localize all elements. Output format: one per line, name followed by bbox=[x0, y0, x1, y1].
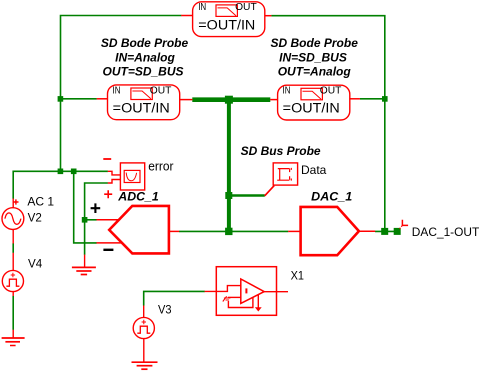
svg-text:ADC_1: ADC_1 bbox=[117, 189, 159, 203]
probe U5 icon bbox=[216, 5, 237, 17]
pin stub right probe IN bbox=[270, 99, 277, 101]
wire ADC plus input branch bbox=[85, 219, 97, 221]
svg-text:IN=SD_BUS: IN=SD_BUS bbox=[279, 50, 347, 64]
pin stub top probe IN bbox=[181, 15, 192, 17]
probe U5 text bbox=[198, 1, 257, 32]
label SD Bode Probe right bbox=[271, 36, 359, 79]
X1 ground arrow bbox=[257, 295, 259, 308]
svg-text:Data: Data bbox=[301, 163, 327, 177]
ground under ADC bbox=[72, 267, 96, 274]
X1 lower input wire bbox=[228, 296, 241, 298]
ADC minus mark bbox=[103, 249, 113, 251]
ADC plus mark bbox=[91, 203, 101, 213]
wire ADC minus input branch bbox=[74, 171, 97, 243]
wire top-right net (top probe OUT down to DAC output node) bbox=[271, 16, 385, 232]
label SD Bode Probe left bbox=[101, 36, 189, 79]
probe U6 icon bbox=[131, 88, 152, 100]
wire V3 to X1 input bbox=[144, 291, 205, 305]
wire ADC output to DAC input bbox=[179, 230, 288, 232]
svg-text:=OUT/IN: =OUT/IN bbox=[283, 101, 340, 116]
svg-text:IN: IN bbox=[283, 85, 291, 97]
junction bus tee bbox=[225, 96, 233, 104]
error probe plus mark bbox=[104, 190, 112, 198]
pin stub V2 bottom bbox=[12, 229, 14, 243]
junction ADC plus input bbox=[82, 217, 88, 223]
X1 input step wire bbox=[205, 286, 241, 292]
pin stub V2 top bbox=[12, 199, 14, 208]
probe U7 icon bbox=[301, 88, 322, 100]
pin stub left probe IN bbox=[97, 98, 108, 100]
probe U5 Bode ratio probe top box bbox=[193, 2, 265, 37]
pin stub SD bus probe diagonal bbox=[265, 186, 275, 196]
error probe minus mark bbox=[103, 158, 111, 160]
svg-text:V4: V4 bbox=[28, 256, 43, 270]
pin stub right probe OUT bbox=[349, 98, 360, 100]
pin stub ground under ADC bbox=[84, 255, 86, 268]
port symbol DAC_1-OUT bbox=[400, 220, 409, 229]
wire V4 to ground bbox=[12, 296, 14, 330]
svg-text:OUT=Analog: OUT=Analog bbox=[278, 65, 352, 79]
pin stub ADC output bbox=[169, 230, 179, 232]
probe U6 Bode probe left box bbox=[108, 85, 180, 120]
X1 ic symbol bbox=[223, 296, 231, 301]
svg-text:DAC_1: DAC_1 bbox=[311, 189, 352, 203]
ADC U1 body bbox=[109, 206, 169, 254]
svg-text:OUT=SD_BUS: OUT=SD_BUS bbox=[102, 65, 183, 79]
probe U7 text bbox=[283, 85, 342, 116]
junction bus probe tap bbox=[225, 192, 232, 199]
svg-text:SD Bode Probe: SD Bode Probe bbox=[271, 36, 359, 50]
pin stub ADC minus bbox=[97, 242, 123, 244]
svg-text:OUT: OUT bbox=[150, 86, 172, 97]
pin stub left probe OUT bbox=[179, 99, 192, 101]
wire error probe lower pin to ground net bbox=[85, 183, 108, 255]
probe U7 Bode probe right box bbox=[278, 85, 350, 120]
pin stub DAC input bbox=[288, 230, 300, 232]
wire DAC output net bbox=[375, 230, 397, 232]
X1 feedback loop bbox=[228, 297, 253, 307]
svg-text:OUT: OUT bbox=[320, 86, 342, 97]
pin stub V3 top bbox=[143, 306, 145, 318]
svg-text:error: error bbox=[148, 160, 173, 174]
junction left probe IN bbox=[58, 96, 64, 102]
svg-text:SD Bus Probe: SD Bus Probe bbox=[241, 144, 321, 158]
pin stubs error probe bbox=[108, 171, 121, 183]
wire SD bus vertical (thick) bbox=[227, 100, 231, 232]
svg-text:X1: X1 bbox=[291, 269, 305, 283]
pin stub V4 ground bbox=[12, 330, 14, 338]
source V3 pulse bbox=[133, 317, 154, 338]
svg-text:V3: V3 bbox=[158, 303, 172, 317]
svg-text:IN: IN bbox=[198, 1, 206, 13]
wire top-left net (V2 signal to top probe IN) bbox=[61, 16, 182, 99]
wire V2 plus to error probe upper pin bbox=[13, 171, 108, 198]
junction error net branch down bbox=[71, 169, 77, 175]
wire branch to left probe IN bbox=[61, 98, 97, 100]
wire SD bus probe branch bbox=[229, 194, 265, 196]
svg-text:V2: V2 bbox=[28, 210, 43, 224]
junction bus bottom bbox=[225, 228, 232, 235]
junction error net left bbox=[58, 169, 64, 175]
junction DAC output node bbox=[381, 228, 388, 235]
probe error box bbox=[120, 163, 144, 190]
wire vertical down to error net bbox=[60, 99, 62, 172]
probe U6 text bbox=[113, 84, 172, 115]
subcircuit X1 box bbox=[216, 267, 276, 316]
source V4 pulse bbox=[2, 270, 23, 291]
DAC U2 body bbox=[301, 207, 359, 255]
wire right probe OUT link bbox=[360, 98, 385, 100]
svg-text:IN=Analog: IN=Analog bbox=[115, 50, 175, 64]
svg-text:OUT: OUT bbox=[235, 2, 257, 13]
svg-text:AC 1: AC 1 bbox=[27, 195, 54, 209]
X1 hysteresis tick bbox=[245, 288, 247, 293]
junction output port node bbox=[394, 228, 401, 235]
probe SD bus data box bbox=[273, 163, 297, 185]
pin stub V4 top bbox=[12, 253, 14, 271]
pin stub V4 bottom bbox=[12, 292, 14, 296]
svg-text:DAC_1-OUT: DAC_1-OUT bbox=[412, 225, 480, 239]
svg-text:=OUT/IN: =OUT/IN bbox=[198, 18, 255, 33]
svg-text:IN: IN bbox=[113, 84, 121, 96]
pin stub V3 ground bbox=[143, 338, 145, 362]
source V2 AC bbox=[2, 199, 24, 229]
svg-text:=OUT/IN: =OUT/IN bbox=[113, 101, 170, 116]
ground under V3 bbox=[132, 362, 158, 369]
svg-text:SD Bode Probe: SD Bode Probe bbox=[101, 36, 189, 50]
X1 output wire bbox=[264, 291, 288, 293]
pin stub DAC output bbox=[359, 230, 375, 232]
junction right probe OUT bbox=[382, 96, 388, 102]
ground under V4 bbox=[2, 338, 25, 346]
X1 op-amp triangle bbox=[241, 279, 264, 303]
pin stub ADC plus bbox=[97, 219, 119, 221]
pin stub top probe OUT bbox=[265, 15, 272, 17]
wire SD bus horizontal (thick) bbox=[192, 97, 270, 102]
wire between V2 and V4 bbox=[12, 243, 14, 253]
